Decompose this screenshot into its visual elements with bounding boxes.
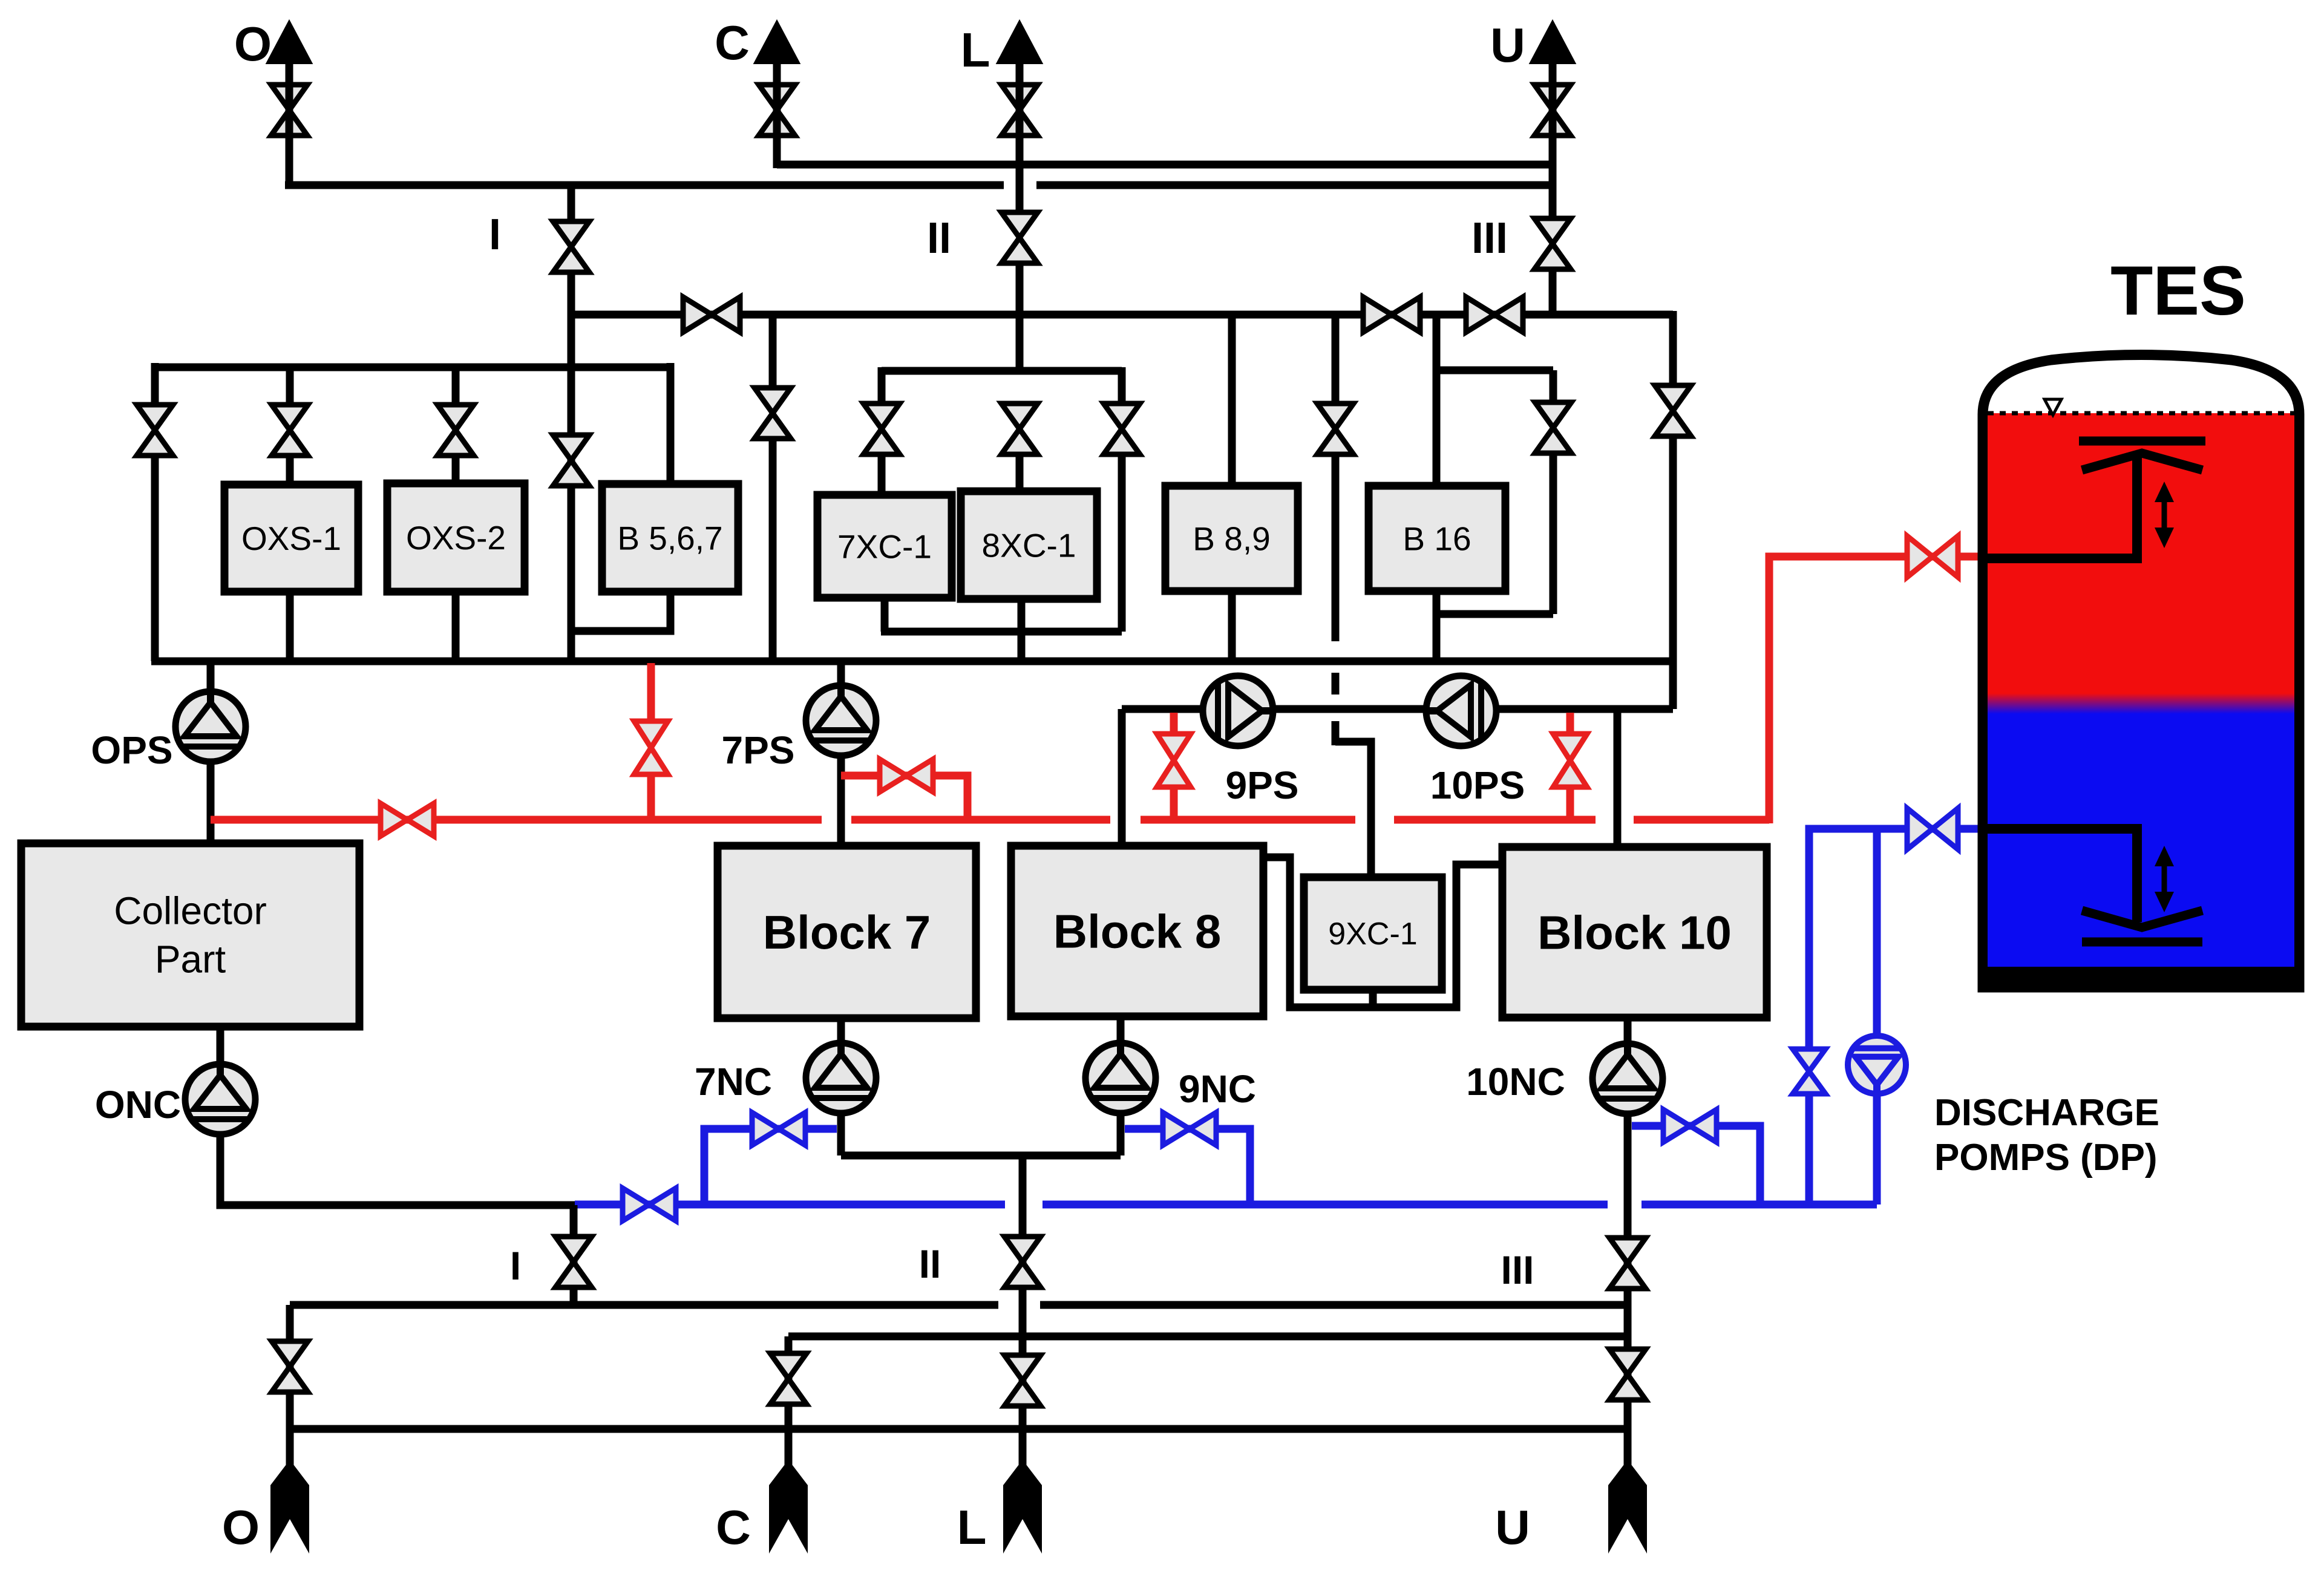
unit OXS-2 — [387, 483, 525, 592]
wire OXS-1 riser lower — [286, 453, 294, 485]
wire XC right leg upper — [1118, 367, 1126, 406]
wire OXS-2 bottom stub — [452, 592, 460, 661]
valve on 10NC blue branch — [1663, 1110, 1717, 1142]
svg-text:C: C — [715, 16, 750, 70]
node O export arrow — [267, 22, 311, 63]
pump 10PS — [1426, 676, 1496, 746]
node O return arrow — [270, 1460, 309, 1554]
wire 9XC feed corner — [1335, 742, 1371, 877]
svg-text:III: III — [1471, 214, 1508, 263]
valve on XC right leg — [1104, 404, 1140, 454]
svg-text:Block 10: Block 10 — [1537, 906, 1732, 959]
TES top diffuser chevron — [2082, 453, 2202, 470]
wire 10NC suction stub — [1624, 1018, 1632, 1047]
svg-text:10PS: 10PS — [1430, 763, 1525, 807]
wire L return stem — [1019, 1429, 1027, 1476]
wire U return stem — [1624, 1429, 1632, 1476]
valve on TES cold port — [1907, 808, 1958, 849]
valve on U return — [1609, 1349, 1646, 1400]
wire suction header y=1172 — [1122, 705, 1673, 713]
valve on 7NC blue branch — [752, 1113, 805, 1145]
svg-text:Block 8: Block 8 — [1053, 904, 1221, 958]
svg-text:TES: TES — [2110, 252, 2246, 330]
wire collect manifold y=1093 — [151, 658, 1673, 665]
wire blue left vertical upper — [1805, 829, 1813, 1050]
wire 9XC bracket — [1260, 857, 1502, 1007]
wire O return stem — [286, 1429, 294, 1476]
TES hot volume — [1988, 413, 2294, 693]
svg-text:O: O — [222, 1500, 260, 1554]
wire red main seg4 — [1394, 816, 1596, 824]
valve on blue left vertical — [1793, 1049, 1825, 1094]
pump 10NC — [1592, 1044, 1663, 1114]
wire drop x=1277 upper — [769, 315, 777, 390]
wire B 5,6,7 bottom jog — [571, 592, 670, 631]
pump ONC — [185, 1064, 255, 1134]
svg-text:8XC-1: 8XC-1 — [982, 526, 1076, 564]
valve on 8XC-1 riser — [1001, 404, 1038, 454]
unit 8XC-1 — [961, 491, 1097, 599]
wire B 16 riser — [1433, 315, 1441, 486]
TES bottom diffuser bar — [2082, 938, 2202, 947]
TES cold volume — [1988, 714, 2294, 967]
wire vertical III lower — [1549, 269, 1557, 318]
pump 7PS — [806, 685, 876, 756]
svg-text:II: II — [919, 1241, 941, 1286]
wire 8XC-1 riser lower — [1016, 452, 1024, 491]
wire XC loop bottom y=1044 — [881, 628, 1122, 636]
wire 7NC blue branch — [704, 1129, 837, 1204]
svg-text:III: III — [1501, 1247, 1534, 1292]
wire red drop lower — [647, 774, 655, 823]
svg-text:II: II — [927, 214, 951, 263]
wire C return branch — [785, 1336, 793, 1429]
wire 9XC feed solid — [1332, 452, 1340, 641]
node C export arrow — [755, 22, 799, 63]
wire 7NC suction stub — [837, 1018, 845, 1045]
wire B 5,6,7 riser — [667, 363, 675, 484]
wire 7XC-1 riser lower — [878, 452, 886, 495]
wire B 16 bypass bottom — [1436, 610, 1553, 618]
svg-text:B 16: B 16 — [1403, 520, 1471, 557]
valve on drop x=1277 — [754, 388, 791, 439]
wire C return stem — [785, 1429, 793, 1476]
svg-text:I: I — [510, 1243, 521, 1288]
wire DP vertical lower — [1873, 1091, 1881, 1204]
wire C stem — [773, 60, 781, 168]
wire OPS suction stub — [207, 661, 215, 695]
svg-text:L: L — [961, 23, 990, 77]
valve on 9XC feed — [1317, 404, 1353, 454]
wire U stem upper — [1549, 60, 1557, 217]
wire header B (O) y=306 left part — [285, 181, 1004, 189]
wire vertical II — [1016, 263, 1024, 371]
wire 10NC discharge — [1624, 1111, 1632, 1429]
TES bottom level arrow — [2155, 846, 2174, 912]
wire ONC line — [220, 1132, 575, 1205]
wire return line 3 — [290, 1425, 1628, 1433]
valve on supply header (right) — [1466, 297, 1523, 332]
wire return line 1 right — [1040, 1301, 1628, 1309]
wire B 8,9 riser — [1228, 315, 1236, 486]
valve on TES hot port — [1907, 536, 1958, 577]
valve on L return — [1004, 1355, 1041, 1406]
wire return line 2 — [788, 1333, 1628, 1341]
valve on vertical I (lower) — [553, 435, 589, 486]
wire 9NC suction stub — [1117, 1016, 1125, 1045]
valve on 7PS red branch — [880, 759, 933, 792]
valve on supply header (mid) — [1363, 297, 1420, 332]
valve on 10PS red line — [1553, 734, 1587, 787]
valve III (lower) — [1609, 1238, 1646, 1289]
wire blue main seg2 — [1043, 1201, 1608, 1209]
unit Block 7 — [718, 846, 976, 1018]
wire OXS-2 riser upper — [452, 367, 460, 407]
vessel TES outline — [1983, 355, 2299, 988]
svg-text:9XC-1: 9XC-1 — [1328, 917, 1417, 952]
valve on B 16 bypass — [1535, 402, 1571, 453]
svg-text:10NC: 10NC — [1466, 1060, 1565, 1103]
wire red main seg1 — [211, 816, 822, 824]
wire right leg lower — [1669, 434, 1677, 709]
wire 7XC-1 riser upper — [878, 367, 886, 406]
svg-text:ONC: ONC — [95, 1083, 181, 1126]
svg-text:Part: Part — [155, 938, 226, 981]
svg-text:B 8,9: B 8,9 — [1193, 520, 1270, 557]
svg-text:OXS-1: OXS-1 — [241, 520, 341, 557]
wire header B (O) y=306 right part — [1036, 181, 1553, 189]
wire 10PS red valve lower — [1566, 786, 1574, 823]
valve on C return — [770, 1353, 807, 1404]
pump 7NC — [806, 1043, 876, 1113]
unit 9XC-1 — [1304, 877, 1442, 990]
TES level marker — [2044, 399, 2061, 415]
wire blue TES header — [1809, 829, 1986, 832]
wire 9NC blue branch — [1125, 1129, 1250, 1204]
wire OXS-1 bottom stub — [286, 592, 294, 661]
wire 8XC-1 bottom stub — [1018, 599, 1026, 661]
svg-text:7NC: 7NC — [695, 1060, 772, 1103]
valve on O export line — [271, 85, 307, 136]
wire vertical I upper — [568, 185, 575, 221]
wire vertical III upper — [1549, 181, 1557, 218]
wire valve-I drop — [570, 1205, 578, 1305]
wire OXS-1 riser upper — [286, 367, 294, 407]
wire 7PS suction stub — [837, 661, 845, 688]
wire blue main seg3 — [1642, 1201, 1877, 1209]
wire 9PS red valve upper — [1170, 713, 1178, 737]
wire blue main seg1 — [575, 1201, 1005, 1209]
wire 9PS red valve lower — [1170, 786, 1178, 823]
unit B 8,9 — [1165, 486, 1298, 591]
pump OPS — [175, 691, 246, 762]
wire ONC suction stub — [217, 1027, 224, 1067]
valve on 9NC blue branch — [1163, 1113, 1216, 1145]
valve on supply header (left) — [683, 297, 740, 332]
unit Block 10 — [1502, 847, 1767, 1018]
valve on U export line — [1534, 85, 1571, 136]
svg-text:9PS: 9PS — [1226, 763, 1299, 807]
wire O stem corner — [286, 181, 293, 189]
svg-text:DISCHARGE: DISCHARGE — [1934, 1092, 2159, 1134]
wire left header y=607 — [155, 364, 670, 371]
svg-text:U: U — [1490, 18, 1525, 72]
svg-text:OPS: OPS — [91, 728, 172, 772]
svg-text:L: L — [957, 1500, 987, 1554]
wire B 16 bypass upper — [1550, 370, 1557, 405]
unit 7XC-1 — [817, 495, 952, 598]
wire 9XC feed dash 2 — [1332, 721, 1340, 745]
svg-text:7XC-1: 7XC-1 — [837, 528, 932, 565]
node C return arrow — [769, 1460, 808, 1554]
valve on red drop — [634, 721, 668, 774]
TES top diffuser bar — [2079, 437, 2205, 446]
wire drop x=1277 lower — [769, 436, 777, 661]
svg-text:C: C — [716, 1500, 751, 1554]
TES top level arrow — [2155, 482, 2174, 548]
wire left end leg x=256 upper — [151, 363, 159, 407]
valve on O return — [272, 1341, 308, 1392]
TES bottom band — [1988, 967, 2294, 984]
svg-text:Collector: Collector — [114, 889, 267, 933]
wire 7PS red branch — [841, 776, 967, 823]
TES top diffuser pipe — [1986, 457, 2137, 558]
wire II lower drop — [1019, 1155, 1027, 1429]
wire Block 10 top stub — [1614, 709, 1622, 847]
unit Collector Part — [21, 843, 359, 1027]
unit B 16 — [1369, 486, 1505, 591]
svg-text:U: U — [1495, 1500, 1530, 1554]
valve I (lower) — [555, 1237, 592, 1287]
svg-text:O: O — [234, 17, 272, 71]
TES bottom diffuser pipe — [1986, 829, 2137, 922]
wire L stem upper — [1016, 60, 1024, 211]
wire supply header y=520 — [571, 311, 1673, 319]
valve on blue main — [623, 1188, 676, 1221]
wire return line 1 left — [290, 1301, 998, 1309]
valve on 7XC-1 riser — [863, 404, 900, 454]
valve on OXS-2 riser — [437, 405, 474, 456]
TES thermocline — [1988, 693, 2294, 714]
svg-text:7PS: 7PS — [722, 728, 795, 772]
valve II (lower) — [1004, 1237, 1041, 1287]
wire header A (C-L-U) y=272 — [777, 161, 1553, 169]
wire red main seg5 — [1634, 816, 1769, 824]
valve I (top main) — [553, 221, 589, 272]
wire XC loop top y=613 — [882, 367, 1122, 375]
svg-text:OXS-2: OXS-2 — [406, 519, 506, 557]
pump DP — [1848, 1036, 1906, 1094]
wire 7PS discharge — [837, 753, 845, 846]
wire OPS discharge — [207, 759, 215, 843]
wire 9XC feed upper — [1332, 315, 1340, 407]
valve on 9PS red line — [1157, 734, 1191, 787]
wire 7XC-1 bottom stub — [881, 598, 889, 632]
pump 9PS — [1203, 676, 1273, 746]
wire NC collect line y=1910 — [841, 1152, 1121, 1160]
svg-text:POMPS (DP): POMPS (DP) — [1934, 1137, 2158, 1178]
node U export arrow — [1531, 22, 1574, 63]
TES bottom diffuser chevron — [2082, 910, 2202, 927]
valve on C export line — [759, 85, 795, 136]
valve on right leg x=2765 — [1655, 385, 1691, 436]
wire right leg upper — [1669, 311, 1677, 388]
wire vertical I mid — [568, 272, 575, 661]
pump 9NC — [1085, 1043, 1156, 1113]
wire 7NC discharge — [837, 1111, 845, 1155]
wire DP vertical upper — [1873, 829, 1881, 1038]
svg-text:Block 7: Block 7 — [763, 906, 931, 959]
wire 10PS red valve upper — [1566, 713, 1574, 737]
node U return arrow — [1608, 1460, 1647, 1554]
wire left end leg x=256 lower — [151, 453, 159, 661]
wire OXS-2 riser lower — [452, 453, 460, 483]
wire XC right leg lower — [1118, 452, 1126, 632]
unit Block 8 — [1011, 846, 1263, 1016]
wire B 16 bypass lower — [1550, 451, 1557, 614]
valve on L export line — [1001, 85, 1038, 136]
unit B 5,6,7 — [602, 484, 738, 592]
valve on red main — [381, 803, 434, 836]
wire O return branch — [286, 1305, 294, 1429]
wire 9XC-1 bottom stub — [1369, 990, 1377, 1007]
wire B 16 bottom stub — [1433, 591, 1441, 661]
valve on left leg x=256 — [137, 405, 173, 456]
wire B 16 bypass top — [1436, 367, 1553, 374]
unit OXS-1 — [224, 485, 358, 592]
svg-text:B 5,6,7: B 5,6,7 — [617, 519, 722, 557]
svg-text:9NC: 9NC — [1179, 1067, 1256, 1111]
valve on OXS-1 riser — [272, 405, 308, 456]
valve III (top main) — [1534, 218, 1571, 269]
wire O stem — [286, 60, 293, 189]
wire red riser to TES — [1769, 557, 1986, 823]
wire blue left vertical lower — [1805, 1093, 1813, 1204]
wire 10NC blue branch — [1632, 1126, 1760, 1204]
wire 9NC discharge — [1117, 1111, 1125, 1155]
svg-text:I: I — [489, 211, 501, 259]
node L return arrow — [1003, 1460, 1042, 1554]
wire red drop upper — [647, 663, 655, 724]
TES water level dotted line — [1988, 411, 2294, 416]
wire red main seg2 — [851, 816, 1110, 824]
wire 9XC feed dash 1 — [1332, 673, 1340, 695]
wire Block 8 top stub — [1118, 709, 1126, 846]
valve II (top main) — [1001, 212, 1038, 263]
wire B 8,9 bottom stub — [1228, 591, 1236, 661]
node L export arrow — [998, 22, 1041, 63]
wire red main seg3 — [1141, 816, 1355, 824]
